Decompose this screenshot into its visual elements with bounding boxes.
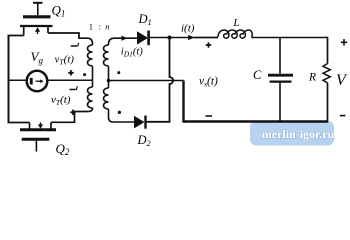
source leg — [29, 123, 31, 130]
capacitor C bottom lead — [279, 83, 281, 122]
svg-text:i(t): i(t) — [181, 23, 195, 35]
arrow — [37, 32, 39, 35]
wire: return downlead and bottom rail — [184, 81, 328, 122]
svg-text:merlin-igor.ru: merlin-igor.ru — [262, 127, 335, 141]
svg-text:V: V — [336, 72, 348, 89]
wire: center tap to output return — [109, 80, 184, 82]
polarity dot secondary lower — [118, 111, 121, 114]
gate bar — [23, 15, 51, 18]
svg-text:vT(t): vT(t) — [51, 94, 71, 107]
svg-text:Vg: Vg — [31, 49, 44, 66]
svg-text:iD1(t): iD1(t) — [121, 47, 144, 59]
drain leg — [50, 122, 52, 130]
watermark box merlin-igor.ru — [250, 121, 335, 146]
wire: top-left wire to Q1 source — [8, 35, 24, 37]
channel bar — [20, 25, 53, 27]
label plus (primary upper) — [68, 70, 73, 75]
wire: bottom-left wire rail to Q2 — [8, 122, 30, 124]
inductor L — [195, 30, 253, 38]
gate stem — [35, 139, 37, 151]
transformer primary upper winding — [88, 38, 93, 80]
node: secondary center tap junction — [107, 79, 111, 83]
wire: rail to Vg — [8, 79, 27, 81]
transformer primary lower winding — [88, 80, 93, 111]
wire: right rail bottom — [327, 83, 329, 123]
svg-text:D1: D1 — [138, 12, 152, 27]
wire: Q1 drain to primary top (with step) — [48, 33, 88, 38]
capacitor C plates — [268, 74, 293, 77]
wire: D2 cathode riser with crossover hop — [147, 38, 174, 122]
wire: inductor to top-right corner — [252, 37, 328, 39]
wire: secondary top to D1 — [114, 37, 137, 39]
polarity dot secondary upper — [117, 71, 120, 74]
svg-text:Q1: Q1 — [52, 3, 66, 19]
source leg — [23, 26, 25, 36]
label minus (primary upper) — [71, 45, 77, 47]
transistor Q1 — [20, 3, 53, 36]
label plus (primary lower) — [70, 110, 75, 115]
label plus (vs) — [206, 42, 211, 47]
label minus (primary lower) — [70, 89, 76, 91]
diode D1 — [137, 31, 149, 46]
svg-text:D2: D2 — [137, 133, 152, 148]
svg-text:L: L — [233, 18, 240, 29]
capacitor C branch top lead — [279, 38, 281, 74]
wire: primary bottom to Q2 (with step) — [51, 112, 88, 123]
current arrow iD1 — [121, 36, 127, 41]
svg-text:vs(t): vs(t) — [199, 76, 218, 89]
svg-text:R: R — [308, 72, 316, 84]
wire: D1 to inductor — [150, 37, 218, 39]
svg-text:Q2: Q2 — [56, 141, 70, 157]
transformer secondary lower winding — [104, 81, 114, 123]
arrow — [40, 122, 42, 124]
wire: right rail top — [327, 37, 329, 64]
svg-text:vT(t): vT(t) — [55, 54, 75, 67]
svg-text:C: C — [253, 68, 262, 82]
wire: Vg to primary center tap — [47, 79, 92, 81]
transistor Q2 — [20, 122, 56, 151]
source Vg circle — [27, 71, 48, 92]
resistor R — [323, 64, 330, 83]
label plus (V output) — [341, 39, 347, 45]
current arrow i(t) — [188, 35, 194, 40]
diode D2 — [134, 116, 146, 129]
label minus (V output) — [340, 115, 346, 117]
label minus (vs) — [206, 115, 213, 117]
node: diode cathode junction — [168, 36, 172, 40]
transformer secondary upper winding — [104, 38, 115, 80]
svg-text:1: 1 — [89, 21, 93, 31]
wire: left rail — [8, 36, 10, 123]
svg-text:n: n — [105, 21, 109, 31]
polarity dot primary upper — [83, 73, 86, 76]
gate stem — [37, 3, 39, 15]
gate bar — [22, 138, 50, 141]
drain leg — [47, 26, 49, 33]
wire: secondary bottom to D2 — [114, 121, 135, 123]
gate terminal T-bar — [33, 2, 43, 4]
channel bar — [20, 128, 56, 131]
svg-text::: : — [99, 21, 101, 31]
